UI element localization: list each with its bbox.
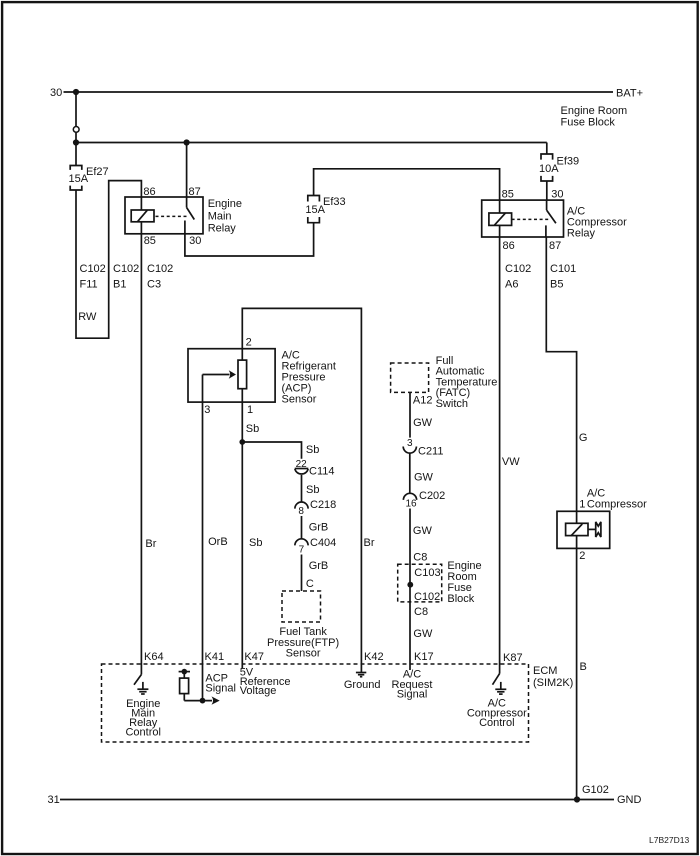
svg-text:C211: C211 bbox=[418, 446, 443, 458]
junction on BAT+ bus bbox=[73, 89, 79, 95]
svg-text:2: 2 bbox=[579, 550, 585, 562]
relay A/C Compressor Relay bbox=[482, 200, 564, 237]
junction box Engine Room Fuse Block dashed bbox=[398, 564, 442, 602]
svg-text:1: 1 bbox=[579, 499, 585, 511]
svg-text:K87: K87 bbox=[503, 652, 523, 664]
arrow ACP signal bbox=[212, 696, 220, 704]
svg-text:C101: C101 bbox=[550, 263, 576, 275]
svg-text:C114: C114 bbox=[309, 466, 334, 478]
connector C114 pin 22 bbox=[295, 459, 309, 474]
svg-text:86: 86 bbox=[503, 240, 515, 252]
wire B: compressor to G102 bbox=[576, 548, 578, 799]
svg-text:Ground: Ground bbox=[344, 679, 381, 691]
svg-text:GW: GW bbox=[413, 628, 433, 640]
fuse Ef33 bbox=[308, 196, 320, 223]
junction on Sb wire bbox=[239, 439, 245, 445]
ground bbox=[495, 682, 506, 694]
svg-text:Switch: Switch bbox=[436, 398, 468, 410]
svg-text:C102: C102 bbox=[414, 591, 440, 603]
wire bbox=[301, 516, 303, 539]
wire RW: fuse Ef27 to relay pin 86 bbox=[76, 181, 141, 339]
fuse Ef39 bbox=[541, 154, 553, 181]
svg-text:Br: Br bbox=[364, 537, 375, 549]
svg-text:F11: F11 bbox=[80, 279, 98, 291]
ground bbox=[137, 682, 148, 694]
svg-text:GrB: GrB bbox=[309, 560, 329, 572]
svg-text:85: 85 bbox=[502, 189, 514, 201]
switch FATC dashed box bbox=[391, 363, 429, 392]
svg-text:Sb: Sb bbox=[249, 537, 262, 549]
resistor pull-up in ECM bbox=[179, 669, 212, 701]
svg-text:8: 8 bbox=[298, 506, 304, 517]
wire VW: relay A/C pin 86 down to ECM K87 bbox=[499, 237, 501, 674]
switch to ground (A/C compressor control) bbox=[493, 674, 500, 685]
wire Br: ACP pin 2 to ECM K42 bbox=[242, 308, 361, 672]
svg-text:RW: RW bbox=[78, 311, 97, 323]
svg-text:Ef33: Ef33 bbox=[323, 196, 346, 208]
connector C404 pin 7 bbox=[295, 539, 308, 556]
wire fuse Ef39 to relay pin 30 bbox=[546, 181, 548, 200]
svg-text:K42: K42 bbox=[364, 651, 384, 663]
junction bbox=[407, 582, 413, 588]
wire fuse Ef33 to relay A/C pin 85 bbox=[314, 169, 500, 200]
wire branch to FTP sensor bbox=[242, 442, 301, 459]
svg-text:Fuse Block: Fuse Block bbox=[561, 117, 616, 129]
svg-text:C102: C102 bbox=[505, 263, 531, 275]
wire GW bbox=[409, 453, 411, 493]
wire ground bus 31 bbox=[60, 799, 614, 801]
svg-text:31: 31 bbox=[48, 794, 60, 806]
svg-text:C103: C103 bbox=[414, 567, 440, 579]
svg-text:3: 3 bbox=[407, 438, 413, 449]
svg-text:Ef39: Ef39 bbox=[557, 155, 580, 167]
svg-text:B1: B1 bbox=[113, 279, 126, 291]
svg-text:2: 2 bbox=[246, 337, 252, 349]
connector C211 pin 3 bbox=[403, 438, 416, 453]
svg-text:C8: C8 bbox=[414, 606, 428, 618]
svg-text:86: 86 bbox=[143, 186, 155, 198]
svg-text:GND: GND bbox=[617, 794, 642, 806]
wire BAT+ bus bbox=[64, 91, 614, 93]
svg-text:Relay: Relay bbox=[567, 228, 596, 240]
svg-text:(SIM2K): (SIM2K) bbox=[533, 677, 573, 689]
svg-text:Engine Room: Engine Room bbox=[561, 105, 628, 117]
svg-text:3: 3 bbox=[204, 404, 210, 416]
svg-text:K41: K41 bbox=[205, 651, 225, 663]
svg-text:G: G bbox=[579, 432, 588, 444]
svg-text:L7B27D13: L7B27D13 bbox=[649, 835, 689, 845]
svg-text:Control: Control bbox=[125, 727, 160, 739]
svg-text:10A: 10A bbox=[539, 163, 559, 175]
svg-text:GW: GW bbox=[413, 525, 433, 537]
svg-text:Sensor: Sensor bbox=[286, 648, 321, 660]
svg-text:ECM: ECM bbox=[533, 665, 557, 677]
junction G102 bbox=[574, 796, 580, 802]
svg-text:C218: C218 bbox=[310, 499, 336, 511]
svg-text:Block: Block bbox=[447, 593, 474, 605]
sensor Fuel Tank Pressure (FTP) dashed box bbox=[282, 591, 321, 622]
svg-text:Signal: Signal bbox=[205, 683, 236, 695]
fuse Ef27 bbox=[70, 166, 82, 191]
svg-text:C102: C102 bbox=[113, 263, 139, 275]
svg-text:C404: C404 bbox=[310, 537, 336, 549]
svg-text:Sb: Sb bbox=[246, 423, 259, 435]
svg-text:C: C bbox=[306, 578, 314, 590]
svg-text:C202: C202 bbox=[419, 490, 445, 502]
svg-text:30: 30 bbox=[189, 235, 201, 247]
svg-text:87: 87 bbox=[549, 240, 561, 252]
svg-text:Br: Br bbox=[145, 538, 156, 550]
svg-text:Main: Main bbox=[208, 210, 232, 222]
svg-text:16: 16 bbox=[406, 499, 418, 510]
svg-text:C102: C102 bbox=[80, 263, 106, 275]
svg-text:85: 85 bbox=[144, 235, 156, 247]
switch to ground (engine main relay control) bbox=[134, 675, 141, 685]
sensor A/C Refrigerant Pressure (ACP) bbox=[188, 349, 275, 402]
wire second feed bus bbox=[76, 142, 547, 144]
wire relay pin 30 to fuse Ef33 bbox=[185, 223, 314, 256]
svg-text:GrB: GrB bbox=[309, 522, 329, 534]
svg-text:B5: B5 bbox=[550, 279, 563, 291]
svg-text:87: 87 bbox=[189, 186, 201, 198]
compressor A/C clutch bbox=[557, 511, 610, 548]
wire relay pin 87 to bus bbox=[186, 143, 188, 198]
wire from BAT+ bus down bbox=[75, 92, 77, 126]
svg-text:15A: 15A bbox=[305, 204, 325, 216]
svg-text:Engine: Engine bbox=[208, 198, 242, 210]
svg-text:K17: K17 bbox=[414, 651, 434, 663]
svg-text:A/C: A/C bbox=[587, 487, 605, 499]
svg-text:K47: K47 bbox=[244, 651, 264, 663]
svg-text:Control: Control bbox=[479, 717, 514, 729]
wire OrB: ACP pin 3 to ECM K41 bbox=[202, 375, 204, 701]
svg-text:Relay: Relay bbox=[208, 223, 237, 235]
svg-text:OrB: OrB bbox=[208, 536, 228, 548]
svg-text:VW: VW bbox=[502, 456, 520, 468]
wire bbox=[75, 133, 77, 143]
svg-text:B: B bbox=[580, 661, 587, 673]
svg-text:Sensor: Sensor bbox=[282, 393, 317, 405]
wire GW from FATC pin A12 bbox=[409, 392, 411, 437]
svg-text:15A: 15A bbox=[69, 173, 89, 185]
wire G: relay A/C pin 87 to compressor bbox=[546, 237, 576, 511]
junction bbox=[73, 139, 79, 145]
svg-text:Ef27: Ef27 bbox=[86, 166, 109, 178]
svg-text:Signal: Signal bbox=[397, 689, 428, 701]
wire bbox=[301, 555, 303, 592]
svg-text:1: 1 bbox=[247, 404, 253, 416]
ground (K42) bbox=[356, 673, 366, 677]
wire bus to fuse Ef39 bbox=[546, 143, 548, 155]
svg-text:Voltage: Voltage bbox=[240, 685, 277, 697]
svg-text:Compressor: Compressor bbox=[587, 499, 647, 511]
junction bbox=[184, 139, 190, 145]
svg-text:30: 30 bbox=[50, 87, 62, 99]
svg-text:A6: A6 bbox=[505, 279, 518, 291]
connector C218 pin 8 bbox=[295, 502, 308, 517]
svg-text:Sb: Sb bbox=[306, 484, 319, 496]
wire Br: relay pin 85 down to ECM K64 bbox=[140, 234, 142, 675]
svg-text:GW: GW bbox=[414, 472, 434, 484]
wire bbox=[301, 475, 303, 502]
relay Engine Main Relay bbox=[125, 197, 203, 234]
ECM (SIM2K) dashed box bbox=[102, 664, 529, 742]
wire Sb: ACP pin 1 to ECM K47 bbox=[241, 389, 243, 669]
junction ACP signal node bbox=[200, 698, 206, 704]
svg-text:GW: GW bbox=[413, 417, 433, 429]
svg-text:7: 7 bbox=[299, 545, 305, 556]
svg-text:K64: K64 bbox=[144, 651, 164, 663]
wire GW to ECM K17 bbox=[409, 509, 411, 671]
svg-text:BAT+: BAT+ bbox=[616, 88, 643, 100]
inline connector (open circle) bbox=[73, 126, 79, 132]
svg-text:C3: C3 bbox=[147, 279, 161, 291]
connector C202 pin 16 bbox=[403, 493, 417, 509]
svg-text:A12: A12 bbox=[413, 395, 433, 407]
svg-text:Sb: Sb bbox=[306, 444, 319, 456]
svg-text:G102: G102 bbox=[582, 784, 609, 796]
svg-text:C102: C102 bbox=[147, 263, 173, 275]
wire bus to fuse Ef27 bbox=[75, 143, 77, 166]
svg-text:C8: C8 bbox=[413, 552, 427, 564]
svg-text:30: 30 bbox=[551, 189, 563, 201]
